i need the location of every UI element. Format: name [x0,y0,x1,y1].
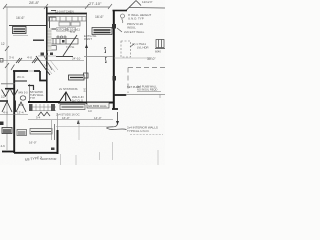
arrow tick [77,120,80,124]
bedroom1 label block dark [92,28,112,35]
svg-text:4-0: 4-0 [88,109,92,113]
pendant lights [57,36,66,38]
wall x86 vertical [86,14,88,105]
outlet box on wall [84,73,89,78]
cabinet text row [57,28,67,32]
svg-text:KITCHEN 10-6x11: KITCHEN 10-6x11 [57,28,80,32]
roof peak symbol top right [136,1,141,6]
leader diagonal [126,1,136,11]
wall x113 right exterior [113,11,115,110]
south wall continuation [58,102,114,104]
svg-text:6040: 6040 [155,50,161,54]
hatched porch band [30,104,56,111]
ceiling fan symbol [121,14,125,18]
svg-text:16'-0": 16'-0" [29,141,37,145]
bath area walls [1,83,15,85]
garage window left wall [0,122,4,126]
window W marks [38,112,50,116]
top band dark [56,56,73,58]
top dimension line [3,4,112,9]
top wall main [47,13,88,15]
svg-text:12/12 P: 12/12 P [142,0,152,4]
island dark dot [62,40,65,43]
left edge box [0,59,3,63]
svg-text:2x6 EXT WALL: 2x6 EXT WALL [124,30,145,34]
bedroom divider line y56 [84,56,113,58]
dim arrow on x86 wall [85,44,88,48]
svg-text:16'-0": 16'-0" [62,116,70,120]
wall stub y95 [114,94,126,96]
switch squiggle [105,47,107,53]
svg-text:PAINT: PAINT [84,37,92,41]
top wall right wing [113,10,128,12]
eave line right [129,7,165,10]
kitchen cabinets rows [49,17,87,27]
svg-text:28'-8": 28'-8" [29,0,40,5]
bedroom label box [17,130,27,136]
svg-text:14'-0": 14'-0" [94,116,102,120]
svg-text:W/D: W/D [18,103,25,107]
dim line y114 left [0,114,28,116]
svg-text:4'-0: 4'-0 [27,56,32,60]
window symbol far right [155,40,165,49]
wall stub y40 [33,39,44,41]
living room label box [69,75,85,80]
svg-text:SET PLMB: SET PLMB [127,85,140,89]
south wall main [28,101,60,103]
closet door triangle center [60,92,71,101]
wall y25 dining top [9,25,46,27]
svg-text:27'-10": 27'-10" [89,1,102,6]
faint driveway verticals [61,142,159,165]
svg-text:INSUL: INSUL [127,26,136,30]
left dimension extension line [6,7,8,150]
crown mold label box [13,27,27,34]
door tick right wall [113,76,117,81]
L wall hall [40,71,47,81]
svg-text:GR,BRM HALL: GR,BRM HALL [88,104,107,108]
patio dashed top [128,67,165,69]
big diagonal leader [36,56,50,75]
svg-text:16'-6": 16'-6" [95,15,104,19]
toilet oval [20,96,26,100]
svg-text:TYP: TYP [30,96,35,100]
svg-text:7-2 ISL: 7-2 ISL [66,45,75,49]
svg-text:4'-6: 4'-6 [3,111,8,115]
dim line y119 [28,119,113,121]
bath door triangles down [2,90,27,113]
svg-text:LVL HDR: LVL HDR [137,46,149,50]
vertical lines right of boxes [51,120,53,140]
patio south line [126,94,165,96]
pantry room top right of kitchen [50,11,57,34]
patio top line [114,57,152,59]
svg-text:3'-6: 3'-6 [9,56,14,60]
svg-text:5'-0: 5'-0 [70,30,75,34]
garage walls bottom [57,130,59,154]
wall x14 vertical long [13,71,15,153]
garage label box dark [2,128,12,134]
svg-text:30'-0": 30'-0" [147,57,156,61]
svg-text:10: 10 [1,95,5,99]
hall gray band [48,28,52,50]
svg-text:NO INSUL REQD: NO INSUL REQD [137,88,157,92]
provide label box long [30,129,52,135]
stair hatch diagonals [44,60,58,74]
label box left [60,105,85,110]
marks under [15,80,27,82]
hdr label box [87,103,109,109]
interior dim line y60 [0,60,84,62]
svg-text:12: 12 [1,42,5,46]
top small wall [28,86,34,91]
master wall y71 [13,70,28,72]
line under box [13,35,28,37]
svg-text:6-0: 6-0 [83,88,87,92]
wall x46 center vertical [46,7,48,102]
svg-text:16'-6": 16'-6" [16,16,25,20]
svg-text:13'-4: 13'-4 [17,111,24,115]
dashed chase box [121,41,131,57]
tick x [16,58,38,63]
svg-text:SHOP/STOR: SHOP/STOR [40,157,56,161]
svg-text:4-6: 4-6 [1,144,6,148]
svg-text:W.I.C.: W.I.C. [17,75,25,79]
svg-text:U.N.O. TYP: U.N.O. TYP [128,17,144,21]
patio dashed left [127,68,129,94]
svg-text:TYPICAL U.N.O.: TYPICAL U.N.O. [127,129,150,133]
south wall corner right [112,108,118,110]
svg-text:VAN 5-0: VAN 5-0 [18,91,28,95]
small box on wall [51,148,55,151]
leader arrow bottom right [117,112,119,122]
svg-text:24'-10: 24'-10 [72,57,81,61]
line y126 [56,126,113,128]
left dim ticks [5,46,9,68]
svg-text:2x STATIONS: 2x STATIONS [59,87,78,91]
sink marks [41,53,54,56]
island leader diagonal [63,35,77,56]
island counter [48,39,78,51]
leader x [117,28,122,32]
wall x29 [29,84,31,101]
